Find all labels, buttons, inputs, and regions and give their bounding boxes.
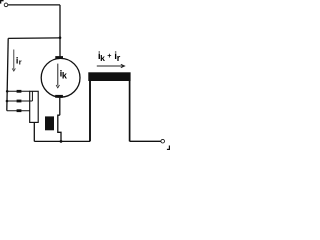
junction dot tap 2 [6,100,9,103]
wire from bottom brush down [59,98,61,115]
contact stud 1 [17,90,22,93]
wire left vertical bus [7,38,8,110]
node junction dot (armature top / resistor branch) [59,36,62,39]
tap wire 1 [7,90,30,92]
contact stud 3 [17,109,22,112]
junction dot tap 1 [6,90,9,93]
wire jog left (contact arm) [58,115,61,141]
label i_r [16,55,22,66]
label i_k + i_r (field winding current) [98,51,121,63]
field winding L (series excitation, filled bar) [88,72,130,81]
wire field winding right lead (down) [129,81,131,141]
contact block K2 (filled) [45,116,54,130]
wire resistor bottom down [33,123,35,142]
svg-text:+: + [107,51,111,60]
svg-text:r: r [19,58,22,67]
wire top horizontal from T1 [8,4,60,6]
wire bottom horizontal left section [34,140,90,142]
svg-text:r: r [117,53,121,63]
motor armature M (circle) [41,58,80,97]
resistor internal tap divider [31,91,33,101]
tap wire 2 [7,100,32,102]
current arrow i_r [12,50,15,72]
current direction arrow for i_k + i_r [97,64,125,67]
label i_k [60,69,68,81]
tap wire 3 [7,110,30,112]
wire top right vertical down to armature [59,5,61,57]
resistor R (tapped starting resistor) [30,91,39,122]
svg-text:k: k [100,53,105,63]
terminal T2 (bottom-right) [161,139,165,143]
terminal T1 (top-left) [4,3,8,7]
wire bottom right horizontal to T2 [130,140,161,142]
corner crop mark bottom-right [167,146,170,151]
junction dot bottom node [60,140,63,143]
wire branch horizontal to left [8,37,60,40]
wire field winding left lead (up) [89,81,91,141]
brush top of armature [55,56,63,59]
contact stud 2 [17,100,22,103]
corner crop mark top-left [0,0,4,4]
current arrow i_k (inside armature) [56,64,59,88]
brush bottom of armature [55,95,63,98]
